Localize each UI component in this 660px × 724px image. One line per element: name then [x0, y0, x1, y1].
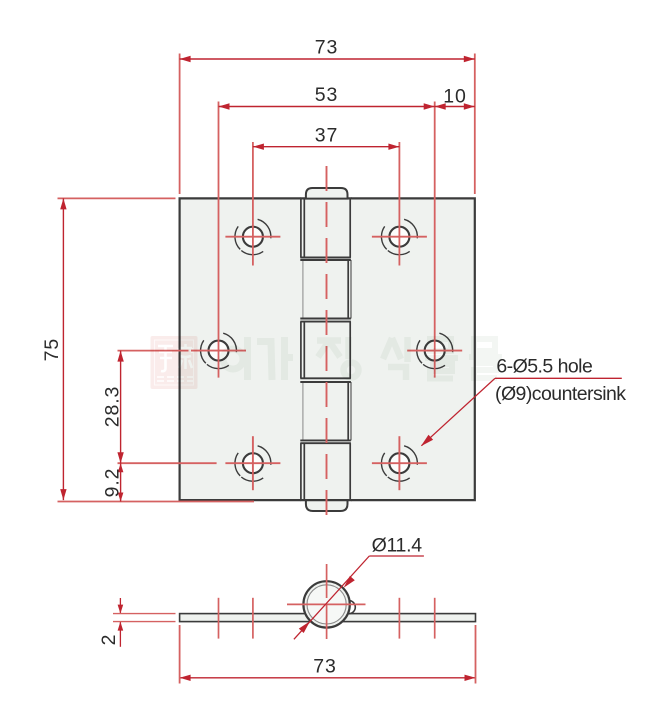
svg-text:2: 2 [98, 634, 120, 646]
leaf wrap curl [349, 601, 356, 614]
extension line y=501.5 (75 bottom / 9.2 bottom) [58, 501, 255, 503]
dimension 28.3 [101, 351, 124, 464]
hole top-left (Ø5.5 csk Ø9) [225, 219, 280, 254]
extension line x=218.5 (53 dim left, to middle-left hole) [218, 102, 220, 378]
extension line y=350.6 (28.3 top) [118, 350, 189, 352]
extension line x=475.5 (bottom 73 right) [475, 625, 477, 684]
barrel vertical centerline (side view) [326, 564, 328, 646]
watermark glyph 6 (물) [469, 339, 502, 378]
svg-text:53: 53 [315, 84, 339, 106]
leader + note 6-Ø5.5 hole / (Ø9)countersink [421, 356, 626, 447]
dimension 2 (leaf thickness) [98, 598, 123, 647]
hole bottom-left (Ø5.5 csk Ø9) [225, 436, 280, 490]
svg-text:73: 73 [315, 37, 339, 59]
dimension 75 (left vertical) [41, 198, 67, 500]
side view leaf strip [180, 614, 476, 622]
hole centerline tick x=252.9 (side view) [252, 598, 254, 639]
dimension 53 [219, 84, 435, 110]
extension line x=179.6 (73 dim left) [179, 54, 181, 195]
svg-text:28.3: 28.3 [101, 386, 123, 428]
extension line y=198.4 (75 top) [58, 197, 176, 199]
svg-text:9.2: 9.2 [101, 468, 123, 498]
right leaf plate (top view) [351, 198, 475, 500]
extension line x=399.4 (37 dim right, to top-right hole) [398, 142, 400, 266]
barrel horizontal centerline (side view) [287, 603, 366, 605]
hole centerline tick x=399.4 (side view) [398, 598, 400, 639]
extension line x=474.8 (73 dim right / 10 dim) [474, 54, 476, 195]
extension line y=621.6 (2 dim bottom) [113, 621, 176, 623]
svg-text:10: 10 [443, 85, 467, 107]
watermark glyph 1 (이) [223, 337, 248, 380]
knuckle even-segment left hidden edges [302, 260, 304, 319]
knuckle segment boundary lines [300, 257, 351, 259]
extension line y=613.6 (2 dim top) [113, 613, 176, 615]
svg-text:73: 73 [313, 655, 337, 677]
barrel centerline (top view) [326, 166, 328, 526]
hole centerline tick x=218.5 (side view) [218, 598, 220, 639]
svg-text:75: 75 [41, 338, 63, 362]
dimension 10 [435, 85, 475, 109]
svg-text:Ø11.4: Ø11.4 [372, 535, 423, 557]
hole top-right (Ø5.5 csk Ø9) [372, 219, 427, 254]
svg-text:37: 37 [315, 125, 339, 147]
extension line x=434.7 (53 dim right, to middle-right hole) [434, 102, 436, 378]
hole bottom-right (Ø5.5 csk Ø9) [372, 436, 427, 490]
extension line x=179.6 (bottom 73 left) [179, 625, 181, 684]
hinge pin top cap [306, 188, 348, 199]
barrel top edge [300, 197, 351, 199]
knuckle even-segment right inner edges [347, 260, 349, 319]
barrel bottom edge [300, 499, 351, 501]
watermark glyph 2 (가) [257, 337, 293, 380]
extension line y=463.2 (28.3 bottom / 9.2 top) [118, 462, 217, 464]
knuckle odd-segment left inner edges [303, 198, 305, 257]
dimension 73 (bottom) [180, 655, 476, 681]
dimension 73 (top) [180, 37, 475, 63]
side view barrel inner circle [307, 585, 346, 624]
side view barrel bore fill [308, 585, 346, 623]
knuckle even-segment right outer edges [350, 260, 352, 319]
hole middle-right (Ø5.5 csk Ø9) [407, 333, 462, 368]
svg-text:6-Ø5.5 hole: 6-Ø5.5 hole [496, 356, 592, 378]
dimension 9.2 [101, 463, 123, 501]
left leaf plate (top view) [180, 198, 301, 500]
knuckle odd-segment right edges [349, 198, 351, 257]
svg-text:(Ø9)countersink: (Ø9)countersink [495, 383, 626, 405]
knuckle odd-segment left outer edges [300, 198, 302, 257]
hole centerline tick x=434.7 (side view) [434, 598, 436, 639]
side view barrel outer circle [303, 581, 349, 627]
watermark glyph 3 (장) [317, 337, 359, 378]
hole middle-left (Ø5.5 csk Ø9) [191, 333, 246, 368]
watermark glyph 5 (몰) [425, 339, 458, 379]
extension line x=252.9 (37 dim left, to top-left hole) [252, 142, 254, 266]
knuckle barrel fill [300, 198, 351, 500]
leader + label Ø11.4 [294, 535, 424, 640]
hinge pin bottom cap [306, 500, 348, 511]
watermark glyph 4 (식) [383, 337, 408, 380]
dimension 37 [253, 125, 400, 150]
